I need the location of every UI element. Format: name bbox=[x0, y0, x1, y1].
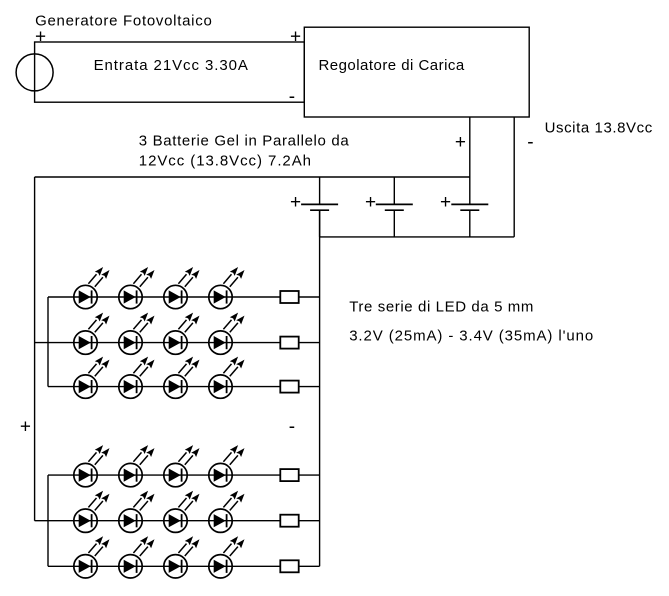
svg-text:3 Batterie Gel in Parallelo da: 3 Batterie Gel in Parallelo da bbox=[139, 133, 350, 150]
svg-text:12Vcc (13.8Vcc) 7.2Ah: 12Vcc (13.8Vcc) 7.2Ah bbox=[139, 152, 311, 169]
svg-text:Regolatore di Carica: Regolatore di Carica bbox=[319, 57, 465, 74]
svg-text:-: - bbox=[289, 417, 295, 438]
svg-text:+: + bbox=[365, 192, 376, 213]
svg-text:+: + bbox=[440, 192, 451, 213]
svg-text:+: + bbox=[35, 27, 46, 48]
svg-text:Tre serie di LED da 5 mm: Tre serie di LED da 5 mm bbox=[349, 298, 533, 315]
svg-text:-: - bbox=[527, 132, 533, 153]
svg-text:Uscita 13.8Vcc: Uscita 13.8Vcc bbox=[545, 119, 653, 136]
svg-text:+: + bbox=[290, 27, 301, 48]
svg-text:+: + bbox=[290, 192, 301, 213]
svg-text:Generatore Fotovoltaico: Generatore Fotovoltaico bbox=[35, 13, 212, 30]
svg-text:Entrata 21Vcc 3.30A: Entrata 21Vcc 3.30A bbox=[94, 57, 248, 74]
svg-text:3.2V (25mA) - 3.4V (35mA) l'un: 3.2V (25mA) - 3.4V (35mA) l'uno bbox=[349, 328, 593, 345]
svg-text:+: + bbox=[455, 132, 466, 153]
svg-text:-: - bbox=[289, 87, 295, 108]
svg-text:+: + bbox=[20, 417, 31, 438]
